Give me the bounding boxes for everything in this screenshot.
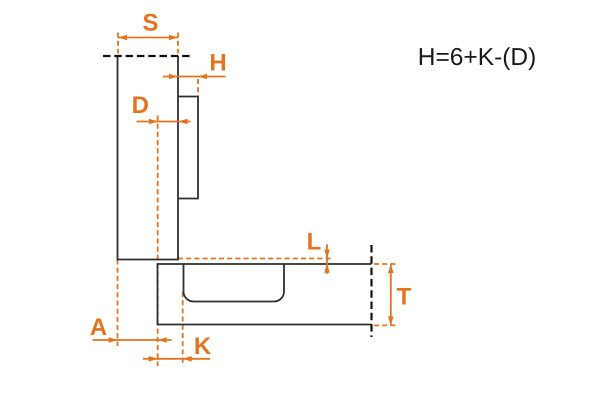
svg-text:A: A	[90, 314, 107, 341]
svg-text:K: K	[194, 333, 212, 360]
svg-text:S: S	[142, 10, 158, 37]
svg-text:L: L	[307, 229, 322, 256]
svg-text:H=6+K-(D): H=6+K-(D)	[418, 44, 536, 71]
svg-text:D: D	[132, 92, 149, 119]
svg-text:H: H	[209, 50, 226, 77]
svg-text:T: T	[397, 284, 412, 311]
